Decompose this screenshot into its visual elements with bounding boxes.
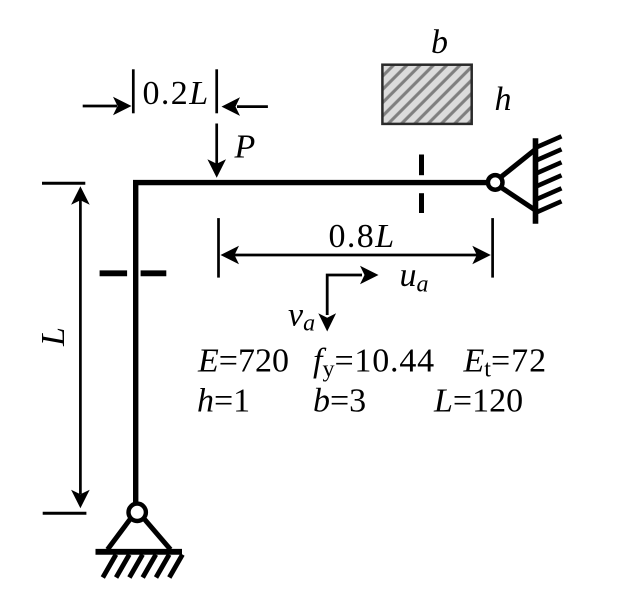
0.2L right arrow xyxy=(222,97,268,116)
load P arrow xyxy=(207,124,226,178)
bottom support hatching xyxy=(103,555,183,578)
node a displacement arrows u_a and v_a xyxy=(318,266,378,332)
0.8L dimension double arrow line xyxy=(221,246,491,265)
svg-text:b=3: b=3 xyxy=(313,383,366,420)
0.2L dimension left tick xyxy=(132,69,135,113)
cross-section rectangle with hatching xyxy=(382,65,471,124)
right pin circle xyxy=(488,175,503,190)
section cut dash marks on column xyxy=(100,270,167,276)
svg-text:Et=72: Et=72 xyxy=(463,343,548,383)
L dimension double arrow line xyxy=(71,186,90,508)
right pin support triangle xyxy=(496,149,536,210)
0.8L dimension right tick xyxy=(491,218,494,278)
svg-text:L=120: L=120 xyxy=(433,383,523,420)
L dimension top tick xyxy=(42,182,85,185)
svg-text:h=1: h=1 xyxy=(197,383,250,420)
right support wall line xyxy=(533,138,539,224)
right support hatching xyxy=(536,136,562,212)
svg-text:b: b xyxy=(431,24,448,61)
bottom pin circle xyxy=(129,504,146,521)
section cut dash marks on beam xyxy=(419,155,424,214)
svg-text:P: P xyxy=(234,129,256,166)
svg-text:0.2L: 0.2L xyxy=(143,75,210,112)
0.2L left arrow xyxy=(83,97,132,116)
beam (horizontal member) and column (vertical member) frame xyxy=(136,183,486,504)
L dimension bottom tick xyxy=(43,512,87,515)
svg-text:h: h xyxy=(495,81,512,118)
bottom pin support triangle xyxy=(108,514,171,550)
svg-text:L: L xyxy=(35,327,72,347)
0.8L dimension left tick xyxy=(217,218,220,278)
svg-text:0.8L: 0.8L xyxy=(329,218,396,255)
bottom support base line xyxy=(96,549,183,555)
svg-text:E=720: E=720 xyxy=(197,343,289,380)
0.2L dimension right tick xyxy=(215,69,218,113)
